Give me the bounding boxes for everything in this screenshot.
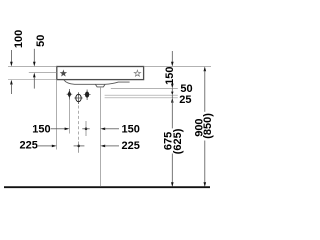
svg-text:50: 50 (35, 35, 47, 47)
overflow symbol: filled ellipse with crosshair (84, 90, 91, 101)
reference line 50 below rim (29, 72, 57, 74)
svg-text:50: 50 (180, 83, 192, 95)
tap hole star right (thin outline) (134, 70, 140, 76)
svg-text:150: 150 (122, 124, 140, 136)
svg-text:150: 150 (164, 67, 176, 85)
reference line 100 below rim (8, 79, 57, 81)
washbasin body (front elevation rectangle) (57, 67, 144, 80)
basin bowl front curve (64, 80, 130, 84)
svg-text:(850): (850) (202, 113, 214, 139)
extension line: basin left edge down (56, 80, 58, 149)
extension line: drain centerline dashed (78, 106, 80, 141)
floor line (4, 186, 210, 188)
dim 100 (rotated) (10, 30, 25, 94)
drain tray trapezoid (95, 84, 105, 87)
svg-text:25: 25 (179, 94, 191, 106)
svg-text:(625): (625) (172, 128, 184, 154)
svg-text:225: 225 (20, 139, 38, 151)
top-left reference line at rim level (8, 66, 57, 68)
extension line: center junction (85, 121, 87, 136)
line B (105, 94, 178, 96)
line A (111, 87, 178, 89)
tap hole star left (filled) (60, 70, 67, 77)
drain symbol: open ellipse with crosshair (74, 92, 82, 104)
dim 150 above rim (rotated) (164, 51, 176, 187)
dim 900 (850) rotated with line (193, 67, 214, 188)
fixing symbol left: diamond on vertical line (67, 89, 73, 100)
extension line: siphon axis down to floor (99, 87, 101, 186)
dim 50 (rotated) (33, 35, 47, 89)
svg-text:100: 100 (13, 30, 25, 48)
dimension row 225/225 (20, 139, 140, 151)
line C (105, 97, 178, 99)
svg-text:225: 225 (122, 140, 140, 152)
dimension row 150/150 (32, 123, 140, 135)
dim 675 (625) rotated (163, 128, 185, 154)
svg-text:150: 150 (32, 123, 50, 135)
extension line: left fixing down (68, 100, 70, 134)
rim extension line to the right (144, 66, 211, 68)
